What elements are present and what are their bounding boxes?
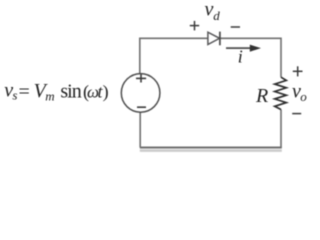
svg-text:o: o [300,89,307,104]
svg-text:s: s [12,88,17,103]
svg-text:d: d [213,8,220,23]
svg-text:sin: sin [60,80,81,102]
svg-text:v: v [205,0,214,21]
svg-text:): ) [103,81,109,102]
svg-text:=: = [19,81,30,103]
svg-text:i: i [238,46,243,66]
svg-text:m: m [45,88,54,103]
svg-text:R: R [255,85,268,107]
